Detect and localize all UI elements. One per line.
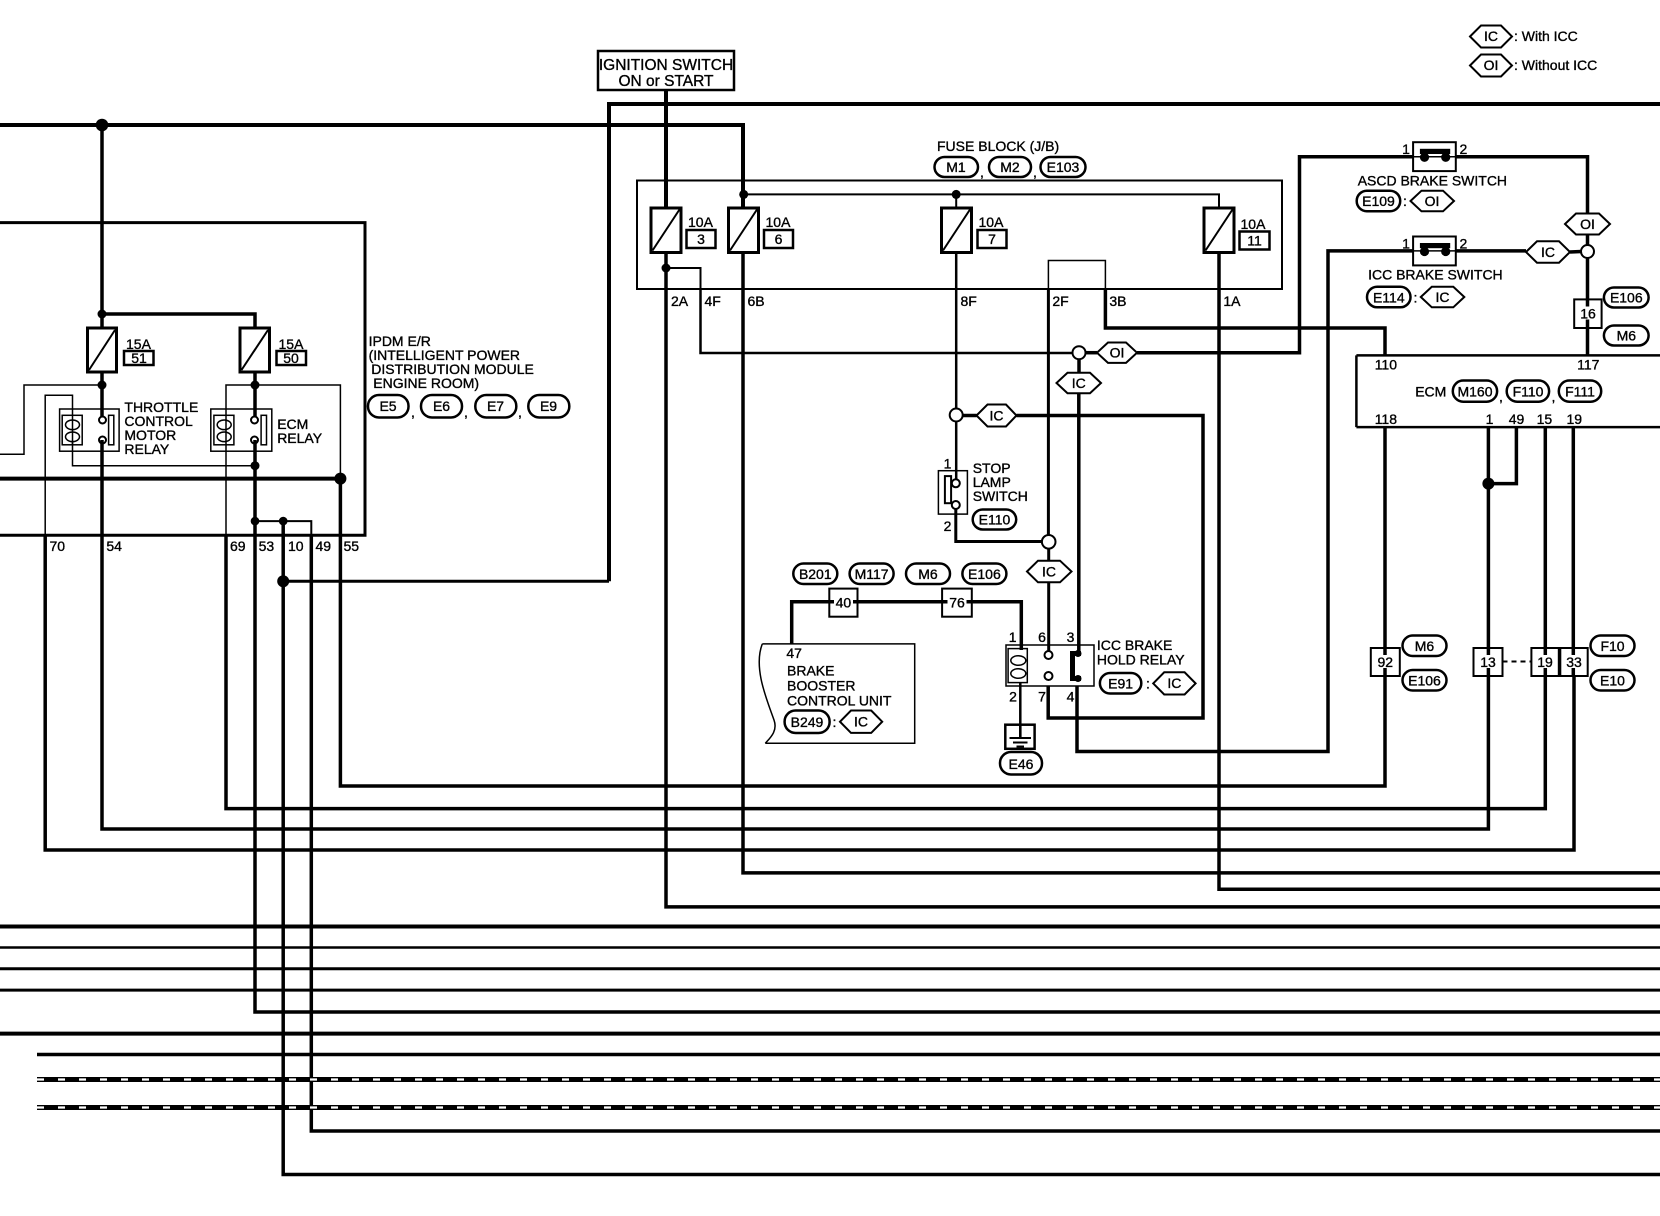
svg-text:118: 118 [1375,411,1398,427]
wire circle to IC hexagon [963,414,977,418]
svg-text:,: , [464,404,468,420]
ICC brake hold relay coil [1008,649,1027,683]
connector E106 oval far right [1403,670,1447,691]
wire ECM relay contact down terminal 53 [255,440,1660,1012]
svg-text:33: 33 [1566,654,1582,670]
svg-text:OI: OI [1484,57,1499,73]
svg-text:6: 6 [775,231,783,247]
wire throttle relay coil bottom to dot [73,441,256,466]
wire ECM pin 1 down to 13 box [1487,427,1491,676]
svg-text:IC: IC [990,407,1004,423]
svg-text:10A: 10A [1241,216,1267,232]
connector E103 oval [1041,157,1086,177]
svg-text:16: 16 [1580,306,1596,322]
svg-text:IC: IC [1436,289,1450,305]
stop lamp switch label [973,460,1028,504]
svg-text:E46: E46 [1009,756,1034,772]
junction dot 53 net at y=521 [251,517,260,526]
wire circle down to IC hexagon [1077,359,1081,373]
connector M1 oval [935,157,979,177]
svg-text:69: 69 [230,538,246,554]
svg-text:: Without ICC: : Without ICC [1514,57,1597,73]
wire stop lamp pin 2 to 2F junction circle [956,509,1042,542]
bus wire inside fuse block y=194.4 [744,194,1219,208]
svg-text:F10: F10 [1600,638,1624,654]
wire: relay output feed horizontal to right edge [609,104,1660,581]
svg-text:1A: 1A [1223,293,1241,309]
connector F110 oval [1507,381,1549,402]
svg-text:E106: E106 [1408,673,1441,689]
wire ICC pin 1 left down right up chain to relay pin 4 [1077,251,1413,752]
svg-text:11: 11 [1247,233,1262,249]
svg-text:OI: OI [1425,193,1440,209]
terminal label 4F [705,293,721,309]
svg-text:M6: M6 [1617,328,1637,344]
svg-text:,: , [411,404,415,420]
svg-text:2: 2 [944,518,952,534]
svg-text:1: 1 [1009,629,1017,645]
svg-text:92: 92 [1378,654,1394,670]
svg-text:1: 1 [1402,141,1410,157]
connector F111 oval [1559,381,1601,402]
junction dot coil to terminal 53 net [251,461,260,470]
OI hexagon on wire to circle [1565,214,1610,235]
svg-text:: With ICC: : With ICC [1514,28,1578,44]
wire: branch to fuse 50 [102,314,255,328]
connector box 13 [1474,648,1503,676]
svg-text:BRAKE: BRAKE [787,663,834,679]
svg-text:10A: 10A [766,214,792,230]
junction dot pins 1 and 49 [1482,478,1494,490]
comma separators IPDM connectors [411,404,522,420]
OI hexagon ASCD tag [1411,191,1455,212]
stop lamp switch body [938,471,967,514]
wire thin branch to ECM relay coil [226,385,255,441]
svg-text:ECM: ECM [1415,384,1446,400]
wire OI hexagon right up to ASCD pin 1 [1137,157,1413,353]
fuse 3 10A [651,208,716,253]
colon separator E109 [1403,193,1407,209]
ICC brake hold relay box [1006,645,1094,686]
fuse 51 15A [88,328,154,372]
junction dot bus at fuse 7 [952,190,961,199]
svg-text:M117: M117 [855,566,889,582]
svg-text:49: 49 [1509,411,1525,427]
ECM pin 117 label [1577,357,1600,373]
svg-text:ASCD BRAKE SWITCH: ASCD BRAKE SWITCH [1358,173,1507,189]
bus wire y=968.8 full width [0,967,1660,970]
wire: battery feed horizontal y=125 to fuse 6 [0,125,743,208]
svg-text:110: 110 [1375,357,1398,373]
svg-text:10A: 10A [688,214,714,230]
fuse 50 15A [240,328,306,372]
svg-text:,: , [1552,389,1556,405]
svg-text:76: 76 [949,595,965,611]
IPDM E/R label text [369,333,534,391]
svg-text:SWITCH: SWITCH [973,488,1028,504]
svg-text::: : [1414,289,1418,305]
feed line y=478.6 from left edge [0,477,340,481]
junction dot on terminal 10 wire y=581 [277,575,289,587]
IC hexagon hold relay tag [1153,672,1195,694]
ECM relay coil [214,415,234,445]
relay pin 4 label [1067,689,1075,705]
bus wire y=947.5 full width thin [0,946,1660,949]
ICC switch pin 1 label [1402,236,1410,252]
wire fuse 3 bottom [664,253,668,290]
legend OI hexagon: Without ICC [1470,55,1512,77]
connector box 33 [1560,648,1587,676]
svg-text:IC: IC [1072,375,1086,391]
IPDM terminal label 53 [259,538,275,554]
dashed link between 13 and 19 boxes [1503,661,1532,663]
connector M6 oval far right [1403,636,1447,657]
fuse block (J/B) box [637,181,1282,290]
fuse block label text [937,138,1059,154]
svg-text:3: 3 [697,231,705,247]
wire circle to IC hexagon on 2F [1047,549,1050,561]
connector M117 oval [850,564,894,585]
svg-text:7: 7 [1038,689,1046,705]
junction circle on 4F chain [1073,346,1086,359]
svg-text:RELAY: RELAY [277,430,323,446]
wire terminal 49 down right to edge [311,535,1660,1131]
wire IC hexagon to junction circle [1570,250,1581,254]
ICC brake hold relay pin 6 circle [1045,651,1053,659]
brake booster control unit box [759,644,914,743]
junction circle ASCD ICC merge [1581,245,1594,258]
svg-text:6B: 6B [748,293,765,309]
connector E9 oval [528,395,569,418]
svg-text:2: 2 [1009,689,1017,705]
svg-text:ICC BRAKE SWITCH: ICC BRAKE SWITCH [1368,267,1503,283]
throttle control motor relay box [60,409,120,451]
svg-text:M1: M1 [946,159,966,175]
connector E110 oval [973,510,1017,530]
connector E6 oval [421,395,462,418]
ECM pin 1 label [1486,411,1494,427]
wire fuse 51 bottom to contact [100,372,104,420]
connector E10 oval [1591,670,1635,691]
wire fuse 50 bottom to contact [253,372,257,420]
svg-text:10: 10 [288,538,304,554]
svg-text:,: , [1499,389,1503,405]
svg-text:15: 15 [1537,411,1553,427]
wire terminal 69 below down right up to 19 box [226,535,1545,808]
wire ECM relay coil bottom to terminal 69 [225,441,227,535]
colon separator E91 [1146,676,1150,692]
svg-text:55: 55 [344,538,360,554]
svg-text:1: 1 [1402,236,1410,252]
svg-text:M6: M6 [1415,638,1435,654]
wire fuse 7 bottom 8F [955,253,958,409]
fuse 11 10A [1204,208,1270,253]
connector E7 oval [475,395,516,418]
fuse 6 10A [729,208,794,253]
colon separator E114 [1414,289,1418,305]
wire 2F down to junction circle [1047,289,1050,536]
legend text: Without ICC [1514,57,1597,73]
svg-text:6: 6 [1038,629,1046,645]
wire IC hexagon down to relay pin 3 [1077,393,1081,651]
svg-text:IC: IC [1167,675,1181,691]
wire ECM pin 15 down to 19 box [1544,427,1548,676]
brake booster control unit pin 47 label [786,645,802,661]
terminal label 6B [748,293,765,309]
svg-text:,: , [980,164,984,180]
wire link 53-10-49 terminals [255,521,311,535]
wire: ignition switch down to fuse 3 [664,90,668,208]
svg-text::: : [833,714,837,730]
throttle relay contact [99,415,114,445]
svg-text:8F: 8F [961,293,977,309]
legend IC hexagon: With ICC [1470,26,1512,48]
svg-text:4F: 4F [705,293,721,309]
svg-text:19: 19 [1567,411,1583,427]
connector box 16 [1574,299,1601,328]
connector E5 oval [368,395,409,418]
IC hexagon on ICC output [1526,241,1570,262]
svg-text:E106: E106 [1610,290,1643,306]
svg-text:40: 40 [836,595,852,611]
svg-text:54: 54 [106,538,122,554]
svg-text:M160: M160 [1457,384,1492,400]
terminal label 2F [1052,293,1068,309]
junction dot below fuse 3 [662,264,671,273]
svg-text:IC: IC [1541,244,1555,260]
ICC brake hold relay contact [1073,650,1082,682]
svg-text:E6: E6 [433,398,450,414]
svg-text:117: 117 [1577,357,1600,373]
terminal label 3B [1109,293,1126,309]
ECM relay box [211,409,272,451]
junction dot bus at fuse 6 [739,190,748,199]
ASCD brake switch body [1413,142,1456,171]
svg-text:HOLD RELAY: HOLD RELAY [1097,652,1185,668]
svg-text:E109: E109 [1362,193,1395,209]
wire relay pin 2 down to ground [1019,683,1022,738]
svg-text:OI: OI [1580,216,1595,232]
ICC brake switch label [1368,267,1503,283]
svg-text:IC: IC [1042,563,1056,579]
IPDM terminal label 70 [50,538,66,554]
svg-text:2A: 2A [671,293,689,309]
svg-text:50: 50 [283,350,299,366]
bus wire y=1033.6 full width [0,1032,1660,1036]
wire ECM pin 19 down to 33 box [1572,427,1576,676]
connector B249 oval [785,711,830,734]
terminal label 1A [1223,293,1241,309]
IPDM terminal label 55 [344,538,360,554]
legend text: With ICC [1514,28,1578,44]
wire IC hexagon down to relay pin 6 [1047,582,1050,651]
node: ignition switch ON or START [598,51,734,90]
svg-text:4: 4 [1067,689,1075,705]
relay pin 2 label [1009,689,1017,705]
svg-text:E7: E7 [487,398,504,414]
connector E114 oval [1367,287,1411,308]
svg-text:E91: E91 [1108,676,1133,692]
connector B201 oval [793,564,837,585]
svg-text:BOOSTER: BOOSTER [787,678,855,694]
svg-text:53: 53 [259,538,275,554]
colon separator B249 [833,714,837,730]
connector E106 oval mid [962,564,1006,585]
junction dot below fuse 50 [251,381,260,390]
brake booster control unit label [787,663,892,709]
svg-text:1: 1 [944,456,952,472]
ASCD switch pin 1 label [1402,141,1410,157]
svg-text:47: 47 [786,645,802,661]
svg-text:E5: E5 [379,398,396,414]
relay pin 7 label [1038,689,1046,705]
IPDM terminal label 49 [316,538,332,554]
connector E46 oval [1000,752,1042,775]
bus wire y=1054.5 from x=37 [37,1053,1660,1057]
svg-text:F110: F110 [1513,384,1544,400]
connector E106 oval right [1604,288,1649,308]
junction circle on 2F chain [1042,535,1056,549]
IC hexagon on 8F branch [977,405,1017,427]
wire terminal 55 down right up to 92 box [340,479,1385,786]
ECM pin 110 label [1375,357,1398,373]
wire junction circle down to 16 box [1586,258,1590,355]
IC hexagon ICC tag [1421,287,1465,308]
svg-text:E103: E103 [1047,159,1080,175]
stop lamp pin 2 label [944,518,952,534]
wire ECM pin 118 down to 92 box [1383,427,1387,676]
svg-text:E9: E9 [540,398,557,414]
svg-text:,: , [1033,164,1037,180]
svg-text:10A: 10A [979,214,1005,230]
junction dot at (102,125) [96,119,109,132]
svg-text:B201: B201 [799,566,832,582]
IPDM E/R box [0,223,365,536]
svg-text:E114: E114 [1373,289,1405,305]
wire branch dot to ignition feed riser [283,580,609,583]
ECM label text [1415,384,1446,400]
svg-text:CONTROL UNIT: CONTROL UNIT [787,693,892,709]
wire throttle relay coil top to terminal 70 [45,395,72,535]
bus wire y=926.5 full width [0,925,1660,929]
wire 6B down and right to edge [743,253,1660,873]
wire throttle relay contact down terminal 54 to 13 box [102,440,1488,829]
wire OI hexagon down to junction circle [1586,235,1590,246]
ICC brake switch body [1413,237,1456,266]
svg-text:RELAY: RELAY [124,441,170,457]
wire ICC pin 2 to IC hexagon [1456,249,1526,253]
svg-text:B249: B249 [791,714,824,730]
svg-text:OI: OI [1110,345,1125,361]
connector F10 oval [1591,636,1635,657]
svg-text:IGNITION SWITCH: IGNITION SWITCH [599,57,733,74]
junction dot terminal 55 net [334,473,346,485]
svg-text:E106: E106 [968,566,1001,582]
svg-text:70: 70 [50,538,66,554]
svg-text:ENGINE ROOM): ENGINE ROOM) [373,375,479,391]
throttle relay label [124,399,198,457]
OI hexagon on wire to ASCD switch [1097,343,1137,363]
ECM relay label [277,416,323,446]
wire 4F down then right to OI circle [701,289,1073,353]
throttle relay coil [62,415,82,445]
junction dot 10 net at y=521 [279,517,288,526]
svg-text:1: 1 [1486,411,1494,427]
svg-text:IC: IC [1484,28,1498,44]
relay pin 1 label [1009,629,1017,645]
wire terminal 10 down right to edge [283,521,1660,1174]
wire ASCD pin 2 right and down [1456,157,1588,214]
terminal label 2A [671,293,689,309]
IPDM terminal label 54 [106,538,122,554]
shielded bus wire y=1078.5 [37,1077,1660,1082]
wire IC hexagon right down left to relay pin 7 [1017,416,1204,719]
svg-text:M6: M6 [918,566,938,582]
ground symbol E46 [1005,725,1034,749]
IC hexagon brake booster [840,711,882,733]
svg-text:,: , [518,404,522,420]
wire 3B down right to ECM pin 110 [1105,289,1385,355]
ASCD brake switch label [1358,173,1507,189]
ECM pin 118 label [1375,411,1398,427]
connector box 92 [1371,648,1400,676]
wire terminal 70 below down right up to 33 box [45,535,1574,850]
wire bus down to fuse 7 [955,194,957,208]
relay pin 6 label [1038,629,1046,645]
wire 8F circle to stop lamp pin 1 [955,422,958,481]
wire fuse 11 bottom 1A [1219,253,1660,890]
svg-text:ON or START: ON or START [618,73,714,90]
bus wire y=990.1 full width [0,989,1660,992]
svg-text::: : [1146,676,1150,692]
svg-text:3B: 3B [1109,293,1126,309]
wire thin branch left exits at y=454 [0,385,102,454]
ICC brake hold relay label [1097,637,1185,668]
svg-text:2: 2 [1460,236,1468,252]
connector box 76 [942,589,972,617]
svg-text:19: 19 [1537,654,1553,670]
IPDM terminal label 10 [288,538,304,554]
svg-text:E10: E10 [1600,673,1625,689]
svg-text:IC: IC [854,714,868,730]
junction dot at (102,314) [98,310,107,319]
connector box 40 [829,589,857,617]
wire ECM pin 49 down to junction [1488,427,1516,484]
svg-text:E110: E110 [979,512,1011,528]
stop lamp pin 1 label [944,456,952,472]
ECM relay contact [251,415,267,445]
svg-text:2: 2 [1460,141,1468,157]
ECM box [1356,355,1660,427]
ASCD switch pin 2 label [1460,141,1468,157]
svg-text:7: 7 [988,231,996,247]
connector E91 oval [1100,673,1141,694]
wire: feed down to fuse 51 [100,125,104,328]
junction dot below fuse 51 [98,381,107,390]
fuse 7 10A [942,208,1007,253]
comma separators ECM connectors [1499,389,1555,405]
svg-text:49: 49 [316,538,332,554]
wire circle to OI hexagon [1086,351,1098,355]
ICC switch pin 2 label [1460,236,1468,252]
connector box 19 [1531,648,1558,676]
svg-text:2F: 2F [1052,293,1068,309]
svg-text:F111: F111 [1565,384,1595,400]
svg-text:FUSE BLOCK (J/B): FUSE BLOCK (J/B) [937,138,1059,154]
shielded bus wire y=1107.5 [37,1105,1660,1110]
wire brake booster unit to relay pin 1 through 40 and 76 [792,602,1022,650]
wire 2A down and right to edge [666,289,1660,907]
